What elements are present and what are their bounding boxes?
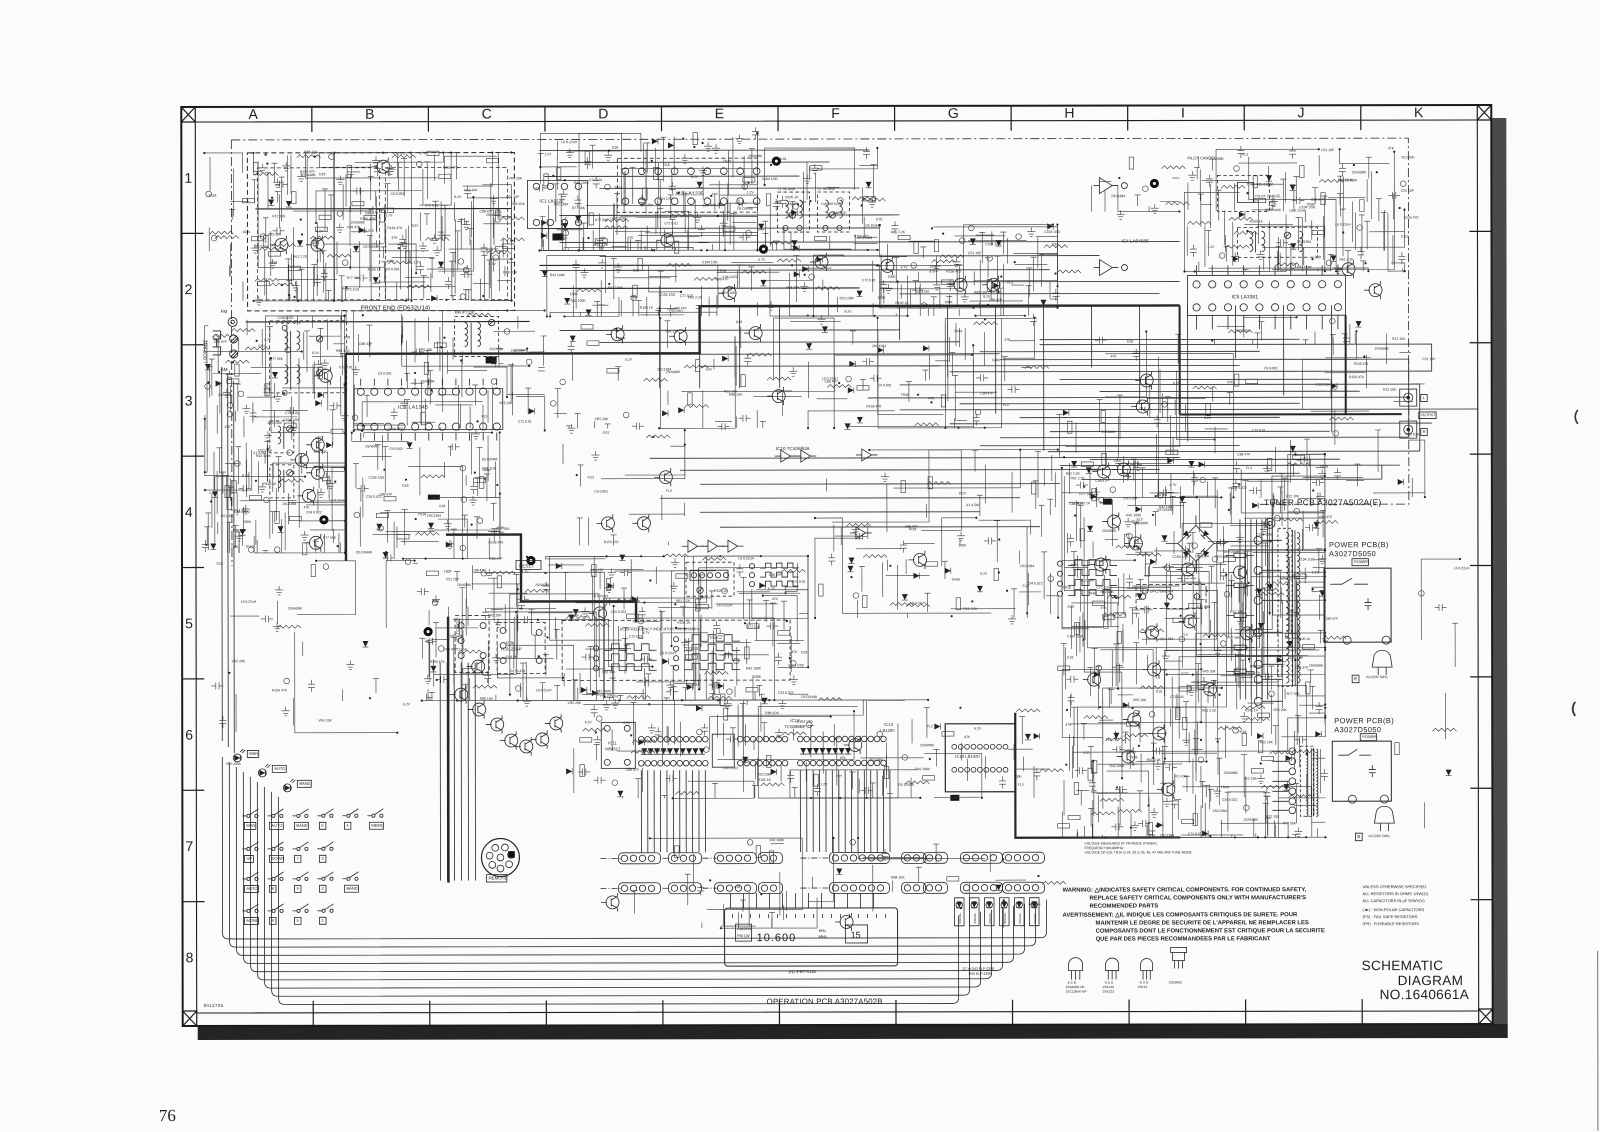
svg-text:1: 1	[184, 170, 192, 186]
svg-text:2SA608K: 2SA608K	[666, 370, 681, 374]
svg-text:2SA608K: 2SA608K	[1375, 347, 1390, 351]
svg-text:REPLACE SAFETY CRITICAL COMPON: REPLACE SAFETY CRITICAL COMPONENTS ONLY …	[1090, 895, 1307, 901]
svg-text:D5 DS448: D5 DS448	[737, 207, 753, 211]
svg-text:TR18: TR18	[1238, 730, 1246, 734]
svg-text:47K: 47K	[303, 505, 310, 509]
svg-text:OPERATION PCB A3027A502B: OPERATION PCB A3027A502B	[767, 997, 883, 1006]
transistor package drawings	[1066, 947, 1187, 993]
svg-text:J: J	[1297, 104, 1304, 120]
svg-text:2SC1384: 2SC1384	[489, 347, 503, 351]
svg-text:C72 0.01: C72 0.01	[393, 152, 407, 156]
svg-text:TR40: TR40	[901, 393, 909, 397]
svg-text:C34 0.022: C34 0.022	[722, 766, 738, 770]
svg-text:2SC1384: 2SC1384	[839, 296, 853, 300]
svg-text:R88 1DK: R88 1DK	[503, 270, 518, 274]
svg-text:C51 10P: C51 10P	[1401, 189, 1415, 193]
svg-text:8.2V: 8.2V	[1181, 671, 1189, 675]
svg-text:C34 0.022: C34 0.022	[611, 610, 627, 614]
svg-text:1.2V: 1.2V	[712, 670, 720, 674]
svg-text:C88 47P: C88 47P	[444, 647, 458, 651]
svg-text:R61 2.2K: R61 2.2K	[293, 255, 308, 259]
svg-text:TR18: TR18	[1320, 465, 1328, 469]
svg-text:TC5066BP: TC5066BP	[784, 724, 806, 729]
front end shield box FD632U14	[247, 153, 514, 311]
punch mark upper	[1575, 410, 1578, 424]
svg-text:47K: 47K	[1227, 380, 1234, 384]
svg-text:2SK246: 2SK246	[1103, 985, 1115, 989]
svg-text:8.2V: 8.2V	[585, 720, 593, 724]
svg-text:C104 1/50: C104 1/50	[660, 293, 676, 297]
svg-text:UNLESS OTHERWISE SPECIFIED:: UNLESS OTHERWISE SPECIFIED:	[1362, 884, 1427, 889]
svg-text:IC11: IC11	[608, 740, 617, 745]
svg-text:R61 2.2K: R61 2.2K	[1202, 709, 1217, 713]
svg-text:TR40: TR40	[1221, 785, 1229, 789]
tuner PCB boundary	[231, 138, 1409, 566]
svg-text:VR5 20K: VR5 20K	[1202, 669, 1216, 673]
svg-text:6: 6	[185, 727, 193, 743]
svg-text:C104 1/50: C104 1/50	[369, 476, 385, 480]
svg-text:A3027D5050: A3027D5050	[1329, 549, 1376, 558]
svg-text:R88 1DK: R88 1DK	[336, 349, 351, 353]
svg-text:2SA608K: 2SA608K	[1309, 664, 1324, 668]
svg-text:R12 10K: R12 10K	[1392, 337, 1406, 341]
svg-text:2SA608K: 2SA608K	[1352, 170, 1367, 174]
IC2 LA1235	[617, 158, 760, 212]
svg-text:CENTER: CENTER	[785, 202, 799, 206]
heavy signal bus 4	[446, 534, 636, 622]
svg-text:D44 ELP-1358: D44 ELP-1358	[969, 972, 991, 976]
svg-text:R105 1K: R105 1K	[785, 195, 799, 199]
svg-text:C88 47P: C88 47P	[365, 211, 379, 215]
svg-text:C88 47P: C88 47P	[980, 392, 994, 396]
svg-text:C72 0.01: C72 0.01	[664, 221, 678, 225]
svg-text:2SC1384K-NP: 2SC1384K-NP	[1066, 990, 1087, 994]
svg-text:100K: 100K	[1014, 775, 1023, 779]
IC5 LA3381	[1188, 265, 1346, 329]
svg-text:VR5 20K: VR5 20K	[232, 659, 246, 663]
svg-text:FL3: FL3	[1018, 783, 1024, 787]
svg-text:1.2V: 1.2V	[414, 260, 422, 264]
svg-text:VR5 20K: VR5 20K	[786, 286, 800, 290]
svg-text:R77 56K: R77 56K	[323, 536, 337, 540]
svg-text:ALL CAPACITORS IN μF 50WV(V): ALL CAPACITORS IN μF 50WV(V)	[1363, 898, 1426, 903]
remote connector	[481, 838, 519, 882]
svg-text:C72 0.01: C72 0.01	[285, 411, 299, 415]
svg-text:2SK223: 2SK223	[1103, 990, 1115, 994]
svg-text:R42 100K: R42 100K	[1338, 178, 1354, 182]
svg-text:SIGNAL: SIGNAL	[1033, 912, 1037, 923]
svg-text:C104 1/50: C104 1/50	[1298, 558, 1314, 562]
svg-text:0.01: 0.01	[876, 217, 883, 221]
svg-text:C51 10P: C51 10P	[221, 514, 235, 518]
svg-text:C72 0.01: C72 0.01	[1096, 586, 1110, 590]
svg-text:2SC1384: 2SC1384	[282, 502, 296, 506]
svg-text:6.2V: 6.2V	[768, 587, 776, 591]
svg-text:FL3: FL3	[1106, 738, 1112, 742]
svg-text:R156 470: R156 470	[359, 229, 374, 233]
svg-text:L6 0.22uH: L6 0.22uH	[561, 140, 577, 144]
svg-text:100K: 100K	[992, 358, 1001, 362]
svg-text:1.2V: 1.2V	[747, 191, 755, 195]
svg-text:2SC1384: 2SC1384	[510, 349, 524, 353]
svg-text:OUTPUT: OUTPUT	[1421, 413, 1437, 417]
svg-text:C88 47P: C88 47P	[590, 568, 604, 572]
next page edge line	[1597, 951, 1599, 1131]
svg-text:L6 0.22uH: L6 0.22uH	[738, 556, 754, 560]
svg-text:47K: 47K	[792, 650, 799, 654]
svg-text:D S G: D S G	[1140, 981, 1149, 985]
svg-text:0.01: 0.01	[1083, 751, 1090, 755]
svg-text:0.01: 0.01	[1067, 655, 1074, 659]
svg-text:3: 3	[185, 392, 193, 408]
svg-text:4.7V: 4.7V	[419, 151, 427, 155]
transformer can T2	[817, 192, 849, 232]
svg-text:C104 1/50: C104 1/50	[762, 177, 778, 181]
svg-text:2SA608K: 2SA608K	[1101, 430, 1116, 434]
corner box bottom-right	[1479, 1009, 1493, 1024]
svg-text:C34 0.022: C34 0.022	[1027, 581, 1043, 585]
svg-text:8.2V: 8.2V	[312, 351, 320, 355]
svg-text:R77 56K: R77 56K	[270, 357, 284, 361]
svg-text:IC10 TC4069UB: IC10 TC4069UB	[776, 446, 810, 451]
loop antenna	[213, 317, 239, 358]
svg-text:FM LW: FM LW	[737, 933, 750, 938]
svg-text:7: 7	[185, 838, 193, 854]
svg-text:BAND: BAND	[299, 781, 310, 786]
svg-text:2SA608K: 2SA608K	[1134, 521, 1149, 525]
svg-text:MAN: MAN	[249, 751, 258, 756]
svg-text:B: B	[365, 106, 374, 122]
svg-text:2SA608K: 2SA608K	[748, 154, 763, 158]
svg-text:POWER: POWER	[1354, 559, 1369, 564]
svg-text:R88 1DK: R88 1DK	[765, 711, 780, 715]
svg-text:X1 4.5M: X1 4.5M	[505, 655, 518, 659]
svg-text:K: K	[1414, 104, 1424, 120]
operation PCB wire loops	[222, 662, 1047, 1005]
svg-text:C88 47P: C88 47P	[1091, 468, 1105, 472]
svg-text:C88 47P: C88 47P	[1319, 515, 1333, 519]
svg-text:C34 0.022: C34 0.022	[306, 510, 322, 514]
svg-text:X1 4.5M: X1 4.5M	[1175, 774, 1188, 778]
svg-text:C88 47P: C88 47P	[626, 768, 640, 772]
svg-text:LOOP ANT: LOOP ANT	[203, 340, 208, 363]
svg-text:C34 0.022: C34 0.022	[1231, 486, 1247, 490]
svg-text:R105 1K: R105 1K	[714, 589, 728, 593]
svg-text:R42 100K: R42 100K	[574, 181, 590, 185]
svg-text:47K: 47K	[392, 236, 399, 240]
corner box top-right	[1477, 105, 1491, 120]
svg-text:IC5 LA3381: IC5 LA3381	[1232, 294, 1259, 300]
svg-text:100K: 100K	[570, 292, 579, 296]
svg-text:10.600: 10.600	[757, 932, 797, 944]
svg-text:X1 4.5M: X1 4.5M	[930, 304, 943, 308]
page edge shadow right	[1491, 118, 1507, 1025]
page edge shadow bottom	[198, 1024, 1508, 1040]
svg-text:L6 0.22uH: L6 0.22uH	[1289, 208, 1305, 212]
svg-text:8.2V: 8.2V	[1204, 416, 1212, 420]
svg-text:A3027D5050: A3027D5050	[1334, 725, 1381, 734]
svg-text:C88 47P: C88 47P	[715, 277, 729, 281]
svg-text:2SA608K: 2SA608K	[1102, 529, 1117, 533]
svg-text:47K: 47K	[706, 368, 713, 372]
svg-text:D18: D18	[216, 562, 222, 566]
front end main bus	[245, 208, 879, 322]
svg-text:R42 100K: R42 100K	[571, 299, 587, 303]
svg-text:D5 DS448: D5 DS448	[1241, 628, 1257, 632]
svg-text:C72 0.01: C72 0.01	[346, 287, 360, 291]
svg-text:2SA608K-NP: 2SA608K-NP	[1066, 985, 1085, 989]
svg-text:G: G	[948, 105, 959, 121]
svg-text:VR5 20K: VR5 20K	[599, 694, 613, 698]
svg-text:LB1290: LB1290	[880, 728, 895, 733]
IC15 regulator	[1136, 584, 1206, 608]
svg-text:R77 56K: R77 56K	[1227, 636, 1241, 640]
heavy signal bus 2	[344, 354, 347, 561]
svg-text:IC1 LA1222: IC1 LA1222	[539, 198, 564, 203]
svg-text:R88 1DK: R88 1DK	[480, 697, 495, 701]
svg-text:5: 5	[185, 615, 193, 631]
svg-text:C9 0.001: C9 0.001	[669, 309, 683, 313]
svg-text:R77 56K: R77 56K	[1287, 692, 1301, 696]
svg-text:D18: D18	[1127, 340, 1133, 344]
IC12 driver box	[712, 734, 734, 767]
svg-text:TR40: TR40	[723, 159, 731, 163]
svg-text:POWER PCB(B): POWER PCB(B)	[1329, 540, 1389, 549]
svg-text:R88 1DK: R88 1DK	[1406, 432, 1421, 436]
svg-text:R12 10K: R12 10K	[314, 450, 328, 454]
logic gate triangles	[681, 178, 1128, 553]
svg-text:2SC1384: 2SC1384	[869, 758, 883, 762]
svg-text:C72 0.01: C72 0.01	[1197, 605, 1211, 609]
svg-text:C72 0.01: C72 0.01	[339, 365, 353, 369]
svg-text:L6 0.22uH: L6 0.22uH	[241, 600, 257, 604]
svg-text:4: 4	[185, 504, 193, 520]
svg-text:1.2V: 1.2V	[820, 782, 828, 786]
svg-text:VR5 20K: VR5 20K	[568, 701, 582, 705]
svg-text:C104 1/50: C104 1/50	[278, 316, 294, 320]
svg-text:E C B: E C B	[1068, 981, 1076, 985]
svg-text:TR18: TR18	[418, 512, 426, 516]
svg-text:2SA608K: 2SA608K	[288, 607, 303, 611]
osc can T11	[270, 465, 294, 498]
svg-text:VR5 20K: VR5 20K	[318, 719, 332, 723]
svg-text:4.7V: 4.7V	[1169, 483, 1177, 487]
svg-text:C88 47P: C88 47P	[1237, 452, 1251, 456]
svg-text:ALL RESISTORS IN OHMS 1/4W(Ω): ALL RESISTORS IN OHMS 1/4W(Ω)	[1363, 891, 1429, 896]
svg-text:100K: 100K	[877, 296, 886, 300]
heavy signal bus 5	[1015, 712, 1180, 837]
svg-text:0.01: 0.01	[1156, 689, 1163, 693]
svg-text:R61 2.2K: R61 2.2K	[1071, 476, 1086, 480]
svg-text:SIGNAL: SIGNAL	[988, 912, 992, 923]
svg-text:C72 0.01: C72 0.01	[1252, 428, 1266, 432]
svg-text:AUTO: AUTO	[271, 823, 282, 828]
svg-text:C104 1/50: C104 1/50	[1173, 555, 1189, 559]
svg-text:A: A	[249, 106, 259, 122]
svg-text:AUTO: AUTO	[274, 766, 285, 771]
svg-text:IC8: IC8	[506, 641, 513, 646]
grid row ticks	[181, 231, 1492, 901]
svg-text:FL3: FL3	[1003, 403, 1009, 407]
MW IF coil pack	[454, 227, 1317, 356]
grid letters A-K	[249, 104, 1425, 122]
svg-text:100K: 100K	[243, 230, 252, 234]
svg-text:R156 470: R156 470	[443, 166, 458, 170]
svg-text:47K: 47K	[928, 396, 935, 400]
svg-text:R105 1K: R105 1K	[263, 482, 277, 486]
svg-text:R61 2.2K: R61 2.2K	[891, 230, 906, 234]
svg-text:C104 1/50: C104 1/50	[283, 418, 299, 422]
svg-text:C104 1/50: C104 1/50	[702, 260, 718, 264]
svg-text:C51 10P: C51 10P	[1321, 148, 1335, 152]
svg-text:C88 47P: C88 47P	[989, 298, 1003, 302]
IC1 LA1222	[527, 180, 587, 228]
svg-text:C88 47P: C88 47P	[480, 209, 494, 213]
svg-text:(FR) : FUSEABLE RESISTORS: (FR) : FUSEABLE RESISTORS	[1363, 921, 1420, 926]
svg-text:100K: 100K	[444, 569, 453, 573]
svg-text:2SA608K: 2SA608K	[301, 173, 316, 177]
svg-text:D18: D18	[736, 320, 742, 324]
svg-text:4.7V: 4.7V	[522, 570, 530, 574]
svg-text:R88 1DK: R88 1DK	[710, 203, 725, 207]
svg-text:R156 470: R156 470	[604, 540, 619, 544]
svg-text:C88 47P: C88 47P	[489, 557, 503, 561]
svg-text:IC15 UPC78M24H: IC15 UPC78M24H	[1140, 588, 1173, 593]
svg-text:H: H	[1064, 105, 1074, 121]
svg-text:R: R	[1423, 429, 1426, 434]
svg-text:WARNING: △INDICATES SAFETY CRI: WARNING: △INDICATES SAFETY CRITICAL COMP…	[1062, 886, 1306, 893]
svg-text:R88 1DK: R88 1DK	[304, 150, 319, 154]
svg-text:SIGNAL: SIGNAL	[1018, 912, 1022, 923]
svg-text:R12 10K: R12 10K	[1383, 388, 1397, 392]
svg-text:C72 0.01: C72 0.01	[686, 647, 700, 651]
svg-text:2SC1384: 2SC1384	[427, 514, 441, 518]
svg-text:2SA608K: 2SA608K	[535, 583, 550, 587]
svg-text:47K: 47K	[1004, 338, 1011, 342]
svg-text:R88 1DK: R88 1DK	[511, 202, 526, 206]
display module	[725, 908, 898, 974]
svg-text:100K: 100K	[888, 275, 897, 279]
svg-text:C9 0.001: C9 0.001	[878, 383, 892, 387]
svg-text:2: 2	[185, 281, 193, 297]
svg-text:RESET: RESET	[519, 563, 535, 568]
IC11 M54517	[601, 722, 635, 768]
power supply section	[1166, 515, 1395, 841]
svg-text:100K: 100K	[945, 300, 954, 304]
svg-text:SIGNAL: SIGNAL	[958, 912, 962, 923]
svg-text:8.2V: 8.2V	[316, 229, 324, 233]
svg-text:R105 1K: R105 1K	[640, 306, 654, 310]
svg-text:VOLTAGE MEASURED AT FM MODE (T: VOLTAGE MEASURED AT FM MODE (TUNER)	[1084, 841, 1156, 845]
svg-text:TR18: TR18	[1062, 586, 1070, 590]
svg-text:VR5 20K: VR5 20K	[509, 176, 523, 180]
svg-text:R105 1K: R105 1K	[1250, 220, 1264, 224]
svg-text:POWER: POWER	[1362, 734, 1377, 739]
svg-text:L6 0.22uH: L6 0.22uH	[1335, 223, 1351, 227]
svg-text:C88 47P: C88 47P	[824, 380, 838, 384]
svg-text:L6 0.22uH: L6 0.22uH	[660, 651, 676, 655]
svg-text:COMPOSANTS DONT LE FONCTIONNEM: COMPOSANTS DONT LE FONCTIONNEMENT EST CR…	[1096, 928, 1325, 934]
svg-text:L6 0.22uH: L6 0.22uH	[1454, 566, 1470, 570]
svg-text:8.2V: 8.2V	[923, 303, 931, 307]
waveform diagrams	[593, 560, 1117, 671]
svg-text:2SA608K: 2SA608K	[457, 583, 472, 587]
svg-text:D5 DS448: D5 DS448	[482, 457, 498, 461]
pilot cancel T7 box	[1217, 175, 1269, 211]
svg-text:R42 100K: R42 100K	[746, 666, 762, 670]
svg-text:6.2V: 6.2V	[625, 358, 633, 362]
svg-text:DOWN: DOWN	[271, 856, 284, 861]
svg-text:0.01: 0.01	[588, 475, 595, 479]
LED indicator row	[955, 898, 1040, 926]
svg-text:C72 0.01: C72 0.01	[792, 580, 806, 584]
svg-text:FL3: FL3	[1007, 281, 1013, 285]
svg-text:8.2V: 8.2V	[454, 195, 462, 199]
svg-text:47K: 47K	[1150, 833, 1157, 837]
svg-text:47K: 47K	[964, 735, 971, 739]
svg-text:1.2V: 1.2V	[544, 152, 552, 156]
svg-text:R77 56K: R77 56K	[747, 625, 761, 629]
svg-text:C72 0.01: C72 0.01	[629, 635, 643, 639]
svg-text:C88 47P: C88 47P	[833, 211, 847, 215]
svg-text:TR18: TR18	[1129, 755, 1137, 759]
svg-text:R42 100K: R42 100K	[915, 767, 931, 771]
svg-text:C9 0.001: C9 0.001	[389, 447, 403, 451]
svg-text:C72 0.01: C72 0.01	[680, 294, 694, 298]
label reset	[516, 560, 541, 569]
svg-text:BAND: BAND	[346, 886, 357, 891]
svg-text:R61 2.2K: R61 2.2K	[1066, 472, 1081, 476]
svg-text:C104 1/50: C104 1/50	[657, 197, 673, 201]
svg-text:L6 0.22uH: L6 0.22uH	[592, 594, 608, 598]
svg-text:R77 56K: R77 56K	[496, 527, 510, 531]
svg-text:47K: 47K	[1091, 789, 1098, 793]
svg-text:R42 100K: R42 100K	[769, 838, 785, 842]
svg-text:C72 0.01: C72 0.01	[862, 278, 876, 282]
svg-text:R42 100K: R42 100K	[256, 454, 272, 458]
svg-text:R61 2.2K: R61 2.2K	[1339, 257, 1354, 261]
grid numbers 1-8	[184, 170, 193, 966]
frequency indicator block	[562, 620, 790, 680]
svg-text:2SA608K: 2SA608K	[351, 220, 366, 224]
svg-text:C72 0.01: C72 0.01	[518, 420, 532, 424]
svg-text:R88 1DK: R88 1DK	[1250, 664, 1265, 668]
svg-text:R61 2.2K: R61 2.2K	[963, 607, 978, 611]
svg-text:FL3: FL3	[1242, 153, 1248, 157]
svg-text:8.2V: 8.2V	[844, 310, 852, 314]
border inner frame	[195, 120, 1478, 1013]
svg-text:L6 0.22uH: L6 0.22uH	[1224, 550, 1240, 554]
svg-text:47K: 47K	[772, 597, 779, 601]
svg-text:C88 47P: C88 47P	[359, 342, 373, 346]
svg-text:47K: 47K	[1388, 146, 1395, 150]
svg-text:FM: FM	[221, 309, 228, 314]
discriminator TA7 box	[686, 562, 734, 596]
svg-text:D: D	[598, 105, 608, 121]
svg-text:D5 DS448: D5 DS448	[898, 783, 914, 787]
svg-text:MHz: MHz	[819, 934, 827, 939]
svg-text:D5 DS448: D5 DS448	[857, 236, 873, 240]
svg-text:6.2V: 6.2V	[403, 702, 411, 706]
svg-text:IC7 TC8002P: IC7 TC8002P	[455, 617, 460, 642]
svg-text:2SC1384: 2SC1384	[1316, 383, 1330, 387]
svg-text:2SC1384: 2SC1384	[1123, 496, 1137, 500]
svg-text:C88 47P: C88 47P	[769, 573, 783, 577]
svg-text:TR40: TR40	[245, 545, 253, 549]
test points	[319, 156, 1160, 802]
svg-text:2SA608K: 2SA608K	[920, 743, 935, 747]
keyboard block	[233, 749, 384, 925]
